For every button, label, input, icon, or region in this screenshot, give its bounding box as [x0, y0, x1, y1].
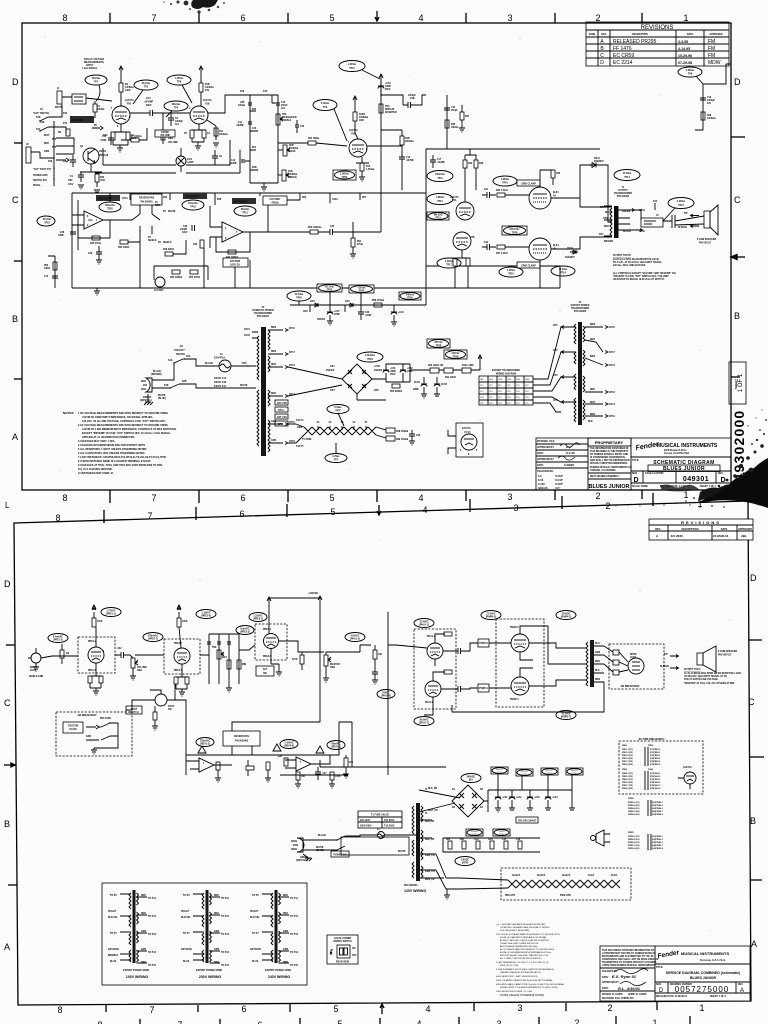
- breakaway cluster PWR5: [628, 832, 663, 850]
- 240V taps left: [250, 895, 261, 963]
- svg-text:12AX7A: 12AX7A: [562, 874, 571, 877]
- svg-text:100mVac: 100mVac: [435, 174, 446, 176]
- svg-text:-ON BREAKAWAY-: -ON BREAKAWAY-: [620, 685, 640, 688]
- svg-text:GRY/GRN: GRY/GRN: [108, 949, 119, 951]
- svg-text:R1N4007: R1N4007: [594, 160, 604, 163]
- sheet2 reverb section: [167, 700, 354, 788]
- svg-text:GRN: GRN: [595, 652, 600, 654]
- node P6 arrow: [92, 126, 103, 130]
- export wiring table: [479, 376, 533, 405]
- test point TP20: [99, 202, 121, 212]
- export tap arrows left: [561, 326, 576, 404]
- svg-text:BRN: BRN: [271, 327, 276, 329]
- wire to V2 box: [135, 654, 164, 656]
- svg-text:WHT: WHT: [44, 135, 50, 137]
- filter cap C31: [383, 364, 389, 382]
- svg-text:(PHA1-1): (PHA1-1): [419, 624, 429, 627]
- ground V1A: [117, 148, 123, 152]
- svg-text:C26: C26: [416, 435, 421, 437]
- svg-text:C35: C35: [502, 839, 507, 841]
- ground heater s2: [444, 889, 450, 899]
- svg-text:APPROVED BY:: APPROVED BY:: [602, 981, 620, 984]
- svg-text:8.4mVAC: 8.4mVAC: [53, 636, 63, 639]
- filter cap C32: [400, 364, 406, 382]
- svg-text:DATE: DATE: [687, 33, 694, 36]
- bridge rectifier: [342, 364, 372, 394]
- svg-text:1.19VAC: 1.19VAC: [201, 612, 210, 615]
- svg-text:TIP: TIP: [684, 213, 688, 215]
- svg-text:TP33: TP33: [472, 834, 476, 836]
- svg-text:PRE1-8: PRE1-8: [88, 670, 97, 672]
- grounds reverb cluster: [295, 780, 335, 788]
- footswitch jack: [155, 694, 167, 706]
- svg-text:TP7: TP7: [334, 460, 339, 462]
- svg-text:1000pF: 1000pF: [707, 100, 716, 102]
- plate resistor R3: [119, 83, 123, 92]
- svg-text:APPROVED BY:: APPROVED BY:: [537, 446, 555, 449]
- cathode V1a s2: [90, 663, 102, 676]
- tone rail rungs: [250, 95, 278, 170]
- test point master: [345, 633, 365, 642]
- svg-text:P/N 0037617: P/N 0037617: [718, 655, 732, 657]
- boxed test point b2: [516, 769, 533, 776]
- svg-text:VIOLET: VIOLET: [181, 911, 190, 913]
- svg-text:LDR LD1: LDR LD1: [230, 265, 240, 267]
- svg-text:D: D: [750, 573, 757, 583]
- svg-text:22K: 22K: [278, 756, 283, 758]
- svg-text:4-14-95: 4-14-95: [678, 47, 690, 51]
- svg-text:FOR AC VOLTAGE: FOR AC VOLTAGE: [84, 58, 105, 61]
- svg-text:+322VDC: +322VDC: [308, 593, 318, 595]
- heater reference tube box: [456, 423, 483, 457]
- ground input: [33, 663, 39, 671]
- bleeder resistors right: [462, 368, 471, 373]
- feedback loop wires: [426, 149, 600, 266]
- svg-text:PWR5-2 (K2): PWR5-2 (K2): [628, 839, 640, 841]
- svg-text:RED_PR: RED_PR: [425, 821, 435, 823]
- mid pot s2: [237, 660, 241, 669]
- svg-text:.047: .047: [322, 772, 327, 775]
- svg-text:(P6)PHA1-8: (P6)PHA1-8: [650, 787, 660, 790]
- svg-text:LOCAL POWER: LOCAL POWER: [334, 937, 352, 940]
- svg-text:230V-240V: 230V-240V: [360, 825, 372, 828]
- test point TP8: [167, 75, 191, 85]
- heater tap arrows: [268, 424, 296, 443]
- svg-text:CR11: CR11: [594, 158, 600, 160]
- svg-text:C30: C30: [183, 226, 188, 228]
- svg-text:WHITE: WHITE: [158, 395, 166, 397]
- svg-text:BLACK: BLACK: [318, 834, 326, 837]
- svg-text:1: 1: [683, 13, 688, 23]
- svg-text:TP2A: TP2A: [407, 297, 413, 300]
- cathode cap C6: [212, 150, 218, 165]
- svg-text:WHITE: WHITE: [168, 211, 176, 213]
- power transformer s2: [416, 803, 420, 881]
- svg-text:CP5: CP5: [480, 385, 484, 387]
- tube PI-B s2: [425, 681, 441, 697]
- leader wire TP5: [166, 111, 172, 117]
- svg-text:INTERNAL FILE:: INTERNAL FILE:: [537, 440, 555, 443]
- svg-text:TP25: TP25: [327, 290, 333, 292]
- grid stopper boxes s2: [478, 639, 489, 647]
- svg-text:BRN: BRN: [590, 414, 595, 416]
- svg-text:CONFIDENCE AND SHALL NOT BE DI: CONFIDENCE AND SHALL NOT BE DISCLOSED OR: [602, 958, 659, 961]
- svg-text:(PWR4-7): (PWR4-7): [561, 616, 571, 619]
- svg-text:C27A: C27A: [122, 197, 128, 200]
- cap C30: [192, 225, 195, 231]
- svg-text:10KΩ: 10KΩ: [44, 268, 50, 270]
- svg-text:(REV2-6): (REV2-6): [284, 746, 294, 748]
- svg-text:TOLERANCES:: TOLERANCES:: [537, 470, 554, 473]
- svg-text:EL84: EL84: [588, 874, 594, 877]
- svg-text:120VAC 60Hz LINE. POWER SWITCH: 120VAC 60Hz LINE. POWER SWITCH ON.: [500, 942, 539, 945]
- svg-text:DATE:: DATE:: [602, 976, 609, 979]
- svg-text:PWR5-9 (K5): PWR5-9 (K5): [628, 848, 640, 850]
- grid clamp label bottom: [517, 262, 540, 268]
- lamp F101: [176, 156, 186, 166]
- 240V taps right: [283, 895, 299, 967]
- svg-text:TP5F: TP5F: [342, 177, 348, 179]
- svg-text:4.05VAC: 4.05VAC: [350, 635, 359, 638]
- resistor R38: [386, 428, 395, 433]
- svg-text:dBL: dBL: [741, 534, 747, 538]
- svg-text:TP8: TP8: [177, 82, 182, 84]
- svg-text:SLEEVE: SLEEVE: [678, 227, 688, 229]
- svg-text:2 LAST REFERENCE: C35, R34, T: 2 LAST REFERENCE: C35, R34, T1, LP, F10,…: [496, 961, 549, 964]
- domestic power transformer T2: [261, 327, 266, 456]
- 230V taps right: [214, 895, 230, 967]
- alignment arrow bottom sheet2: [380, 1004, 384, 1014]
- svg-text:CP3: CP3: [489, 391, 493, 393]
- footsw plate box: [63, 722, 83, 733]
- heater twisted pair s2: [508, 880, 620, 888]
- ground heater: [409, 441, 415, 445]
- svg-text:A: A: [4, 942, 10, 952]
- export power transformer: [578, 322, 582, 425]
- svg-text:5: 5: [337, 1019, 342, 1024]
- svg-text:C11: C11: [238, 122, 243, 124]
- zone ticks right sheet1: [731, 137, 745, 377]
- svg-text:A DVM OF 10MΩ INPUT IMPEDANCE,: A DVM OF 10MΩ INPUT IMPEDANCE, NO SIGNAL…: [82, 416, 153, 419]
- diode CR10: [570, 250, 578, 254]
- test point TP3: [313, 100, 337, 111]
- svg-text:TO P11: TO P11: [290, 898, 298, 900]
- svg-text:L: L: [5, 501, 10, 510]
- reverb pan box s2: [223, 731, 260, 746]
- svg-text:APPLIED AT J1. REVERB PAN CON: APPLIED AT J1. REVERB PAN CONNECTED.: [82, 436, 135, 439]
- leader wire TP3: [334, 109, 347, 141]
- wire reverb left rail: [72, 193, 78, 288]
- heater labels: [296, 419, 304, 448]
- ground caps s2: [495, 808, 533, 812]
- svg-text:R21: R21: [252, 147, 257, 149]
- resistor box R30: [430, 368, 439, 373]
- svg-text:MASTER: MASTER: [330, 663, 340, 666]
- notes sheet2: [496, 923, 565, 997]
- svg-text:250KΩ&: 250KΩ&: [288, 174, 297, 176]
- svg-text:"FAT" SWITCH: "FAT" SWITCH: [33, 112, 49, 115]
- svg-text:12AX7A: 12AX7A: [125, 99, 134, 102]
- zone ticks top sheet1: [110, 13, 642, 23]
- svg-text:1kV: 1kV: [281, 108, 286, 110]
- svg-text:PWR5-5: PWR5-5: [510, 699, 519, 701]
- svg-text:V1B: V1B: [205, 104, 210, 106]
- preamp tube box V1a: [78, 637, 115, 673]
- cap C25: [318, 229, 352, 235]
- svg-text:TO P6: TO P6: [183, 895, 190, 897]
- svg-text:PWR5-7 (K4): PWR5-7 (K4): [628, 844, 640, 847]
- svg-text:BLK/YEL: BLK/YEL: [108, 917, 118, 919]
- svg-text:AT 28mVAC 1kHz INPUT SIGNAL AT: AT 28mVAC 1kHz INPUT SIGNAL AT 5%: [684, 675, 727, 678]
- svg-text:EC CR59: EC CR59: [613, 53, 634, 59]
- test point TP13: [614, 170, 640, 181]
- scan blot top: [191, 0, 218, 9]
- connector contacts: [72, 94, 86, 104]
- svg-text:CP1: CP1: [507, 403, 511, 405]
- plate resistor R13: [353, 112, 357, 121]
- svg-text:DIGITIZING FILE: 258BPL400: DIGITIZING FILE: 258BPL400: [602, 997, 634, 1000]
- svg-text:BRN: BRN: [590, 356, 595, 358]
- left lower components column: [48, 256, 55, 288]
- svg-text:P10: P10: [63, 113, 68, 115]
- svg-text:10-29-96: 10-29-96: [678, 54, 692, 58]
- coupling caps to EL84: [482, 192, 496, 198]
- svg-text:PM1B0: PM1B0: [161, 132, 169, 134]
- svg-text:R5 1.5KΩa: R5 1.5KΩa: [130, 136, 142, 138]
- 100V taps right: [141, 895, 157, 967]
- svg-text:REV.: REV.: [738, 984, 744, 986]
- wire left feed column: [56, 138, 74, 154]
- ground caps: [421, 394, 440, 398]
- svg-text:R2R: R2R: [289, 145, 294, 147]
- svg-text:S2B: S2B: [182, 381, 187, 383]
- svg-text:450V: 450V: [390, 373, 396, 376]
- svg-text:RELEASE DATE: 21-MAR-01: RELEASE DATE: 21-MAR-01: [656, 995, 688, 998]
- wire master to right: [314, 645, 371, 652]
- fuse s2: [378, 832, 385, 839]
- B+ branch arrows s2: [92, 605, 181, 610]
- svg-text:(K4)PWR4-7: (K4)PWR4-7: [652, 810, 663, 813]
- svg-text:120 VAC, 60 Hz LINE VOLTAGE, C: 120 VAC, 60 Hz LINE VOLTAGE, CONTROLS CC…: [82, 420, 166, 423]
- svg-text:CR3: CR3: [310, 301, 315, 303]
- svg-text:SHIELD: SHIELD: [163, 242, 172, 244]
- tube PWR4 s2: [511, 634, 529, 652]
- svg-text:+CR2: +CR2: [374, 366, 381, 368]
- svg-text:TO P15: TO P15: [290, 965, 299, 967]
- cap C1: [78, 172, 84, 182]
- svg-text:CP1: CP1: [498, 385, 502, 387]
- svg-text:PRE3-8 (P6): PRE3-8 (P6): [622, 788, 633, 790]
- svg-text:TRANSMITTED TO OTHERS WITHOUT: TRANSMITTED TO OTHERS WITHOUT AUTHORIZ-: [602, 961, 657, 964]
- zone numbers top sheet2: [55, 499, 702, 523]
- svg-text:(P1)PHA1-1: (P1)PHA1-1: [650, 772, 660, 775]
- svg-text:470Ω: 470Ω: [357, 243, 363, 246]
- svg-text:181mVac: 181mVac: [188, 203, 199, 205]
- svg-text:100MF: 100MF: [180, 229, 188, 231]
- svg-text:PRE3-2 (P2): PRE3-2 (P2): [622, 776, 633, 778]
- wires transformer to bridge: [288, 367, 342, 396]
- svg-text:7: 7: [151, 493, 156, 503]
- svg-text:CR5,CR6 1N4007: CR5,CR6 1N4007: [518, 820, 537, 823]
- svg-text:-15VDC: -15VDC: [498, 831, 505, 833]
- sheet2 export wiring box: [102, 883, 307, 985]
- coupling cap GC1: [146, 110, 158, 116]
- output test text s2: [684, 669, 742, 685]
- svg-text:(PHA1-7): (PHA1-7): [419, 722, 429, 725]
- resistor R56: [310, 230, 318, 234]
- svg-text:(PRE1-2): (PRE1-2): [53, 640, 63, 642]
- svg-text:VOLUME: VOLUME: [137, 667, 147, 669]
- svg-text:E.S. Ryan 01: E.S. Ryan 01: [612, 974, 637, 979]
- sheet2 power supply: [291, 767, 631, 900]
- connector pins s2: [613, 650, 619, 655]
- svg-text:1000pF: 1000pF: [408, 95, 417, 97]
- svg-text:PRE1: PRE1: [622, 745, 627, 747]
- svg-text:SCALE: NONE: SCALE: NONE: [632, 485, 648, 488]
- svg-text:(PRE3-2): (PRE3-2): [240, 632, 250, 634]
- svg-text:ATION FROM FENDER MUSICAL INST: ATION FROM FENDER MUSICAL INSTRUMENTS.: [602, 964, 656, 967]
- svg-text:C24A: C24A: [332, 198, 338, 201]
- svg-text:PWR5-9: PWR5-9: [479, 688, 488, 690]
- svg-text:TBC: TBC: [385, 106, 390, 108]
- svg-text:R33: R33: [479, 163, 484, 165]
- svg-text:GRY/GRN: GRY/GRN: [181, 949, 192, 951]
- svg-text:"ON-OFF": "ON-OFF": [174, 350, 185, 352]
- B+ rail right: [379, 74, 383, 190]
- svg-text:RED: RED: [271, 364, 276, 366]
- svg-text:16V: 16V: [205, 90, 210, 92]
- horizontal rail to supply: [320, 760, 446, 775]
- svg-text:B: B: [4, 819, 10, 829]
- cap C27: [327, 305, 333, 321]
- svg-text:TO P15: TO P15: [148, 965, 157, 967]
- svg-text:CP2: CP2: [525, 385, 529, 387]
- svg-text:250KΩ&100R: 250KΩ&100R: [282, 117, 297, 119]
- coupling cap stage1: [115, 652, 130, 658]
- wire J3 to bus: [31, 152, 54, 158]
- wire pan connections: [128, 205, 160, 234]
- svg-text:CP4: CP4: [525, 391, 529, 393]
- svg-text:1MΩ: 1MΩ: [330, 667, 335, 669]
- svg-text:R19: R19: [240, 91, 245, 93]
- tube V3B phase inverter: [453, 232, 471, 250]
- svg-text:3: 3: [496, 1019, 501, 1024]
- svg-text:10MF: 10MF: [58, 235, 64, 237]
- wires opamp2: [285, 755, 330, 768]
- dark value box C9: [70, 116, 94, 123]
- svg-text:470K: 470K: [292, 658, 298, 661]
- svg-text:1/18/95: 1/18/95: [564, 463, 574, 467]
- svg-text:C9 R100Ω: C9 R100Ω: [72, 120, 83, 122]
- tap arrows: [630, 203, 655, 232]
- svg-text:BLUES JUNIOR: BLUES JUNIOR: [690, 976, 717, 980]
- text note: AC voltage measurement: [82, 58, 105, 70]
- svg-text:10.4V ACROSS DCΩ SPKR OR 8Ω RE: 10.4V ACROSS DCΩ SPKR OR 8Ω RESISTIVE LO…: [684, 672, 742, 675]
- svg-text:TP36: TP36: [572, 773, 576, 775]
- svg-text:1MF: 1MF: [68, 180, 73, 182]
- svg-text:CP1: CP1: [516, 403, 520, 405]
- svg-text:C34: C34: [365, 311, 370, 314]
- feedback loop U1A: [78, 220, 110, 238]
- svg-text:U1A: U1A: [88, 219, 93, 222]
- wire tone to V3: [239, 645, 255, 650]
- svg-text:EXPORT POWER: EXPORT POWER: [571, 305, 590, 307]
- svg-text:AT INPUT JACK, ALL CONTROLS AT: AT INPUT JACK, ALL CONTROLS AT MID ROTAT…: [500, 939, 549, 942]
- svg-text:1.42Vac: 1.42Vac: [445, 260, 454, 263]
- svg-text:C10: C10: [102, 136, 107, 138]
- PI internal wires: [433, 634, 452, 689]
- svg-text:SIZE: SIZE: [656, 984, 662, 986]
- svg-text:CP22: CP22: [244, 335, 250, 337]
- boxed test point TP2A: [399, 292, 421, 300]
- svg-text:3 THIS SCHEMATIC IS FOR FIELD: 3 THIS SCHEMATIC IS FOR FIELD SERVICE P/…: [496, 968, 555, 971]
- svg-text:R26: R26: [451, 124, 456, 126]
- svg-text:R20: R20: [252, 109, 257, 111]
- left vertical bus: [53, 121, 55, 186]
- svg-text:1.86Vdc: 1.86Vdc: [340, 174, 349, 176]
- svg-text:10K: 10K: [378, 654, 383, 656]
- wire J4 to speaker: [663, 215, 704, 228]
- svg-text:12AX7A: 12AX7A: [349, 129, 358, 132]
- svg-text:C25: C25: [330, 226, 335, 228]
- sheet 2 border frame: [14, 501, 751, 1005]
- svg-text:OFF CP4: OFF CP4: [277, 416, 287, 419]
- boxed test point TP2R: [427, 339, 450, 348]
- right column D-zone: [678, 64, 731, 130]
- reverb bus stubs: [110, 193, 360, 205]
- wire tone rails: [250, 95, 278, 183]
- svg-text:2: 2: [595, 491, 600, 501]
- svg-text:2: 2: [574, 1018, 579, 1024]
- svg-text:LAMP: LAMP: [187, 161, 194, 164]
- svg-text:REVISIONS: REVISIONS: [681, 520, 721, 525]
- test point mid: [143, 633, 163, 642]
- svg-text:81mVAC: 81mVAC: [240, 628, 250, 631]
- svg-text:TP12: TP12: [437, 201, 443, 203]
- bridge output wires: [357, 379, 386, 400]
- svg-text:FM: FM: [708, 46, 715, 52]
- svg-text:120 Vac, 60Hz LINE VOLTAGE.: 120 Vac, 60Hz LINE VOLTAGE.: [613, 264, 646, 267]
- svg-text:A: A: [751, 939, 757, 949]
- coupling caps s2: [452, 648, 470, 692]
- svg-text:PWR4-9 (K5): PWR4-9 (K5): [628, 813, 640, 816]
- svg-text:JERRY D. LEWIS: JERRY D. LEWIS: [628, 994, 647, 996]
- svg-text:BLK_PR: BLK_PR: [428, 788, 438, 790]
- note box SEE NOTE 9 (2): [183, 193, 207, 199]
- svg-text:CR6: CR6: [303, 311, 308, 313]
- svg-text:CP8: CP8: [553, 375, 558, 377]
- OT secondary taps: [604, 206, 638, 236]
- svg-text:NOTES:(UNLESS OTHERWISE NOTED): NOTES:(UNLESS OTHERWISE NOTED): [500, 994, 544, 997]
- svg-text:BLACK: BLACK: [205, 362, 213, 365]
- zone letters left sheet1: [12, 77, 19, 442]
- transistor Q1: [83, 148, 99, 164]
- B+ arrow V3a: [267, 597, 271, 634]
- svg-text:DATE: DATE: [721, 528, 728, 531]
- svg-text:(P4)PRE2-6: (P4)PRE2-6: [650, 757, 660, 760]
- cap C2B: [403, 102, 416, 108]
- leader wire TP2: [133, 90, 143, 104]
- svg-text:R1B: R1B: [288, 171, 293, 173]
- resistor R39: [386, 436, 395, 441]
- svg-text:(P2)PRE2-2: (P2)PRE2-2: [650, 752, 660, 754]
- svg-text:4: 4: [425, 1004, 430, 1014]
- svg-text:TO P7: TO P7: [183, 933, 190, 935]
- svg-text:178mVAC: 178mVAC: [200, 740, 211, 743]
- ground breakaway: [91, 748, 97, 754]
- svg-text:PRE3-3 (P3): PRE3-3 (P3): [622, 779, 633, 781]
- tube V1B: [190, 106, 208, 124]
